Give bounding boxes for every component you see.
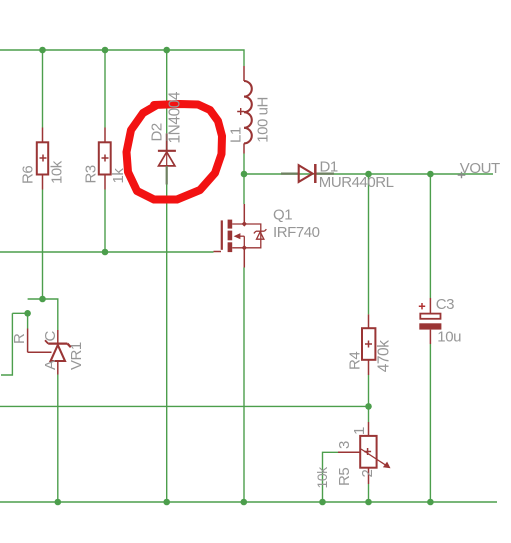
wire R6 column — [42, 50, 44, 128]
svg-text:R4: R4 — [347, 352, 364, 370]
gate pin — [214, 251, 222, 253]
svg-text:C: C — [42, 331, 59, 342]
drain link — [232, 224, 261, 248]
node gnd d2 — [163, 499, 170, 506]
wire vr1 top — [28, 299, 58, 330]
net flag cross VOUT — [458, 172, 466, 178]
source pin — [243, 248, 245, 268]
node vr1 top — [39, 296, 46, 303]
svg-text:1k: 1k — [110, 168, 127, 184]
svg-text:R6: R6 — [20, 166, 37, 184]
wire L1 Q1 column — [243, 154, 245, 205]
wiper arrow — [361, 449, 386, 465]
resistor R6 — [37, 128, 48, 190]
svg-text:Q1: Q1 — [273, 207, 292, 224]
wire R3 column — [104, 50, 106, 128]
wire vout rail — [244, 173, 493, 175]
node L1 out — [241, 171, 248, 178]
node gnd c3 — [427, 499, 434, 506]
wire drain pin — [243, 204, 245, 224]
svg-text:10k: 10k — [314, 466, 330, 489]
wire R5 pin3 — [323, 452, 339, 502]
resistor R3 — [99, 128, 111, 190]
svg-text:D2: D2 — [149, 123, 166, 141]
wire bottom rail — [0, 501, 497, 503]
wire gate rail — [0, 251, 214, 253]
svg-text:1: 1 — [351, 427, 368, 435]
body diode — [254, 229, 267, 239]
svg-text:L1: L1 — [228, 127, 245, 143]
node gate R3 — [102, 249, 109, 256]
node gnd r5 — [365, 499, 372, 506]
svg-text:MUR440RL: MUR440RL — [319, 174, 394, 191]
svg-text:R: R — [11, 333, 28, 344]
node vout R4 — [365, 171, 372, 178]
svg-text:1N4004: 1N4004 — [167, 91, 184, 143]
svg-text:A: A — [42, 360, 59, 370]
svg-text:R3: R3 — [83, 165, 100, 183]
source arrow — [234, 233, 245, 248]
diode D2 — [158, 133, 176, 184]
node vout C3 — [427, 171, 434, 178]
node top R6 — [39, 47, 46, 54]
node top D2 — [163, 47, 170, 54]
svg-text:470k: 470k — [376, 340, 393, 373]
node ref — [24, 310, 31, 317]
svg-text:3: 3 — [336, 441, 353, 449]
ref pin — [27, 329, 29, 353]
wire top rail — [0, 50, 244, 66]
transistor Q1 — [214, 204, 267, 268]
pin dots — [242, 221, 247, 250]
diode D1 — [281, 164, 334, 183]
inductor L1 — [237, 66, 252, 154]
node R4 R5 — [365, 403, 372, 410]
wire left stub — [1, 313, 12, 375]
node gnd q1 — [241, 499, 248, 506]
pin 3 lead — [338, 451, 360, 453]
svg-text:VOUT: VOUT — [460, 160, 500, 177]
node gnd vr1 — [55, 499, 62, 506]
resistor R4 — [362, 314, 375, 375]
wire D2 column — [166, 50, 168, 133]
wire mid rail — [0, 405, 369, 407]
wire R4 column — [368, 174, 370, 314]
gate bar — [221, 220, 223, 249]
channel bars — [228, 220, 233, 253]
potentiometer R5 — [338, 422, 391, 484]
svg-text:VR1: VR1 — [68, 342, 85, 370]
wire ref branch — [12, 313, 27, 328]
regulator VR1 — [28, 329, 71, 375]
svg-text:10k: 10k — [49, 160, 66, 184]
svg-text:C3: C3 — [436, 296, 454, 313]
node gnd r5w — [319, 499, 326, 506]
node top R3 — [102, 47, 109, 54]
svg-text:R5: R5 — [336, 468, 353, 486]
capacitor C3 — [419, 298, 442, 344]
svg-text:10u: 10u — [437, 328, 461, 345]
svg-text:2: 2 — [359, 470, 376, 478]
svg-text:100 uH: 100 uH — [254, 97, 271, 143]
wire C3 column — [429, 174, 431, 298]
wire VR1 column — [57, 375, 59, 503]
svg-text:IRF740: IRF740 — [273, 224, 320, 241]
marker circle — [127, 104, 223, 200]
